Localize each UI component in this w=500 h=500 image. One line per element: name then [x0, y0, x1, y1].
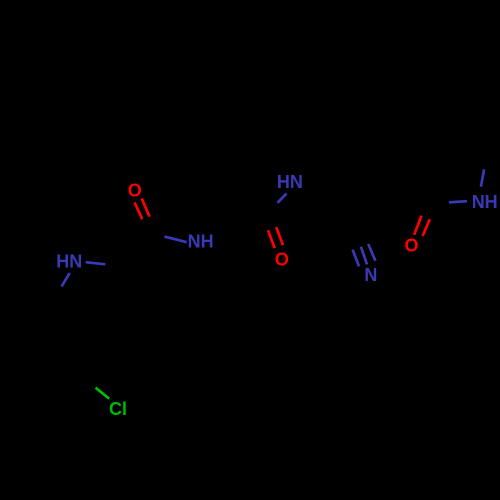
- svg-text:N: N: [364, 265, 377, 285]
- svg-text:NH: NH: [472, 192, 498, 212]
- svg-text:O: O: [128, 181, 142, 201]
- svg-text:Cl: Cl: [109, 399, 127, 419]
- svg-text:HN: HN: [56, 252, 82, 272]
- svg-text:O: O: [404, 236, 418, 256]
- svg-text:HN: HN: [277, 172, 303, 192]
- svg-text:NH: NH: [188, 232, 214, 252]
- svg-text:O: O: [275, 250, 289, 270]
